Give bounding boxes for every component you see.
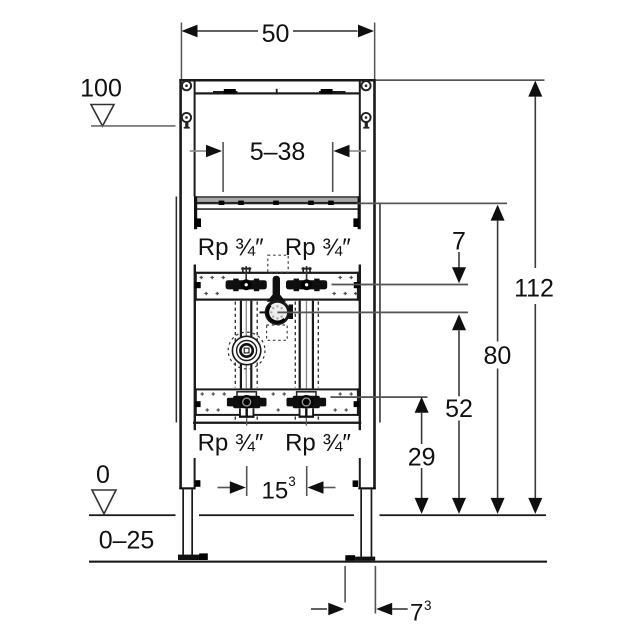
supply elbow fitting top left — [226, 266, 267, 291]
frame right rail outer edge — [373, 79, 376, 489]
dimension 5-38 (adjustable rail range) — [190, 138, 366, 192]
raw floor line — [89, 561, 547, 563]
dashed guide lines left pipe — [235, 302, 257, 423]
frame left rail flange line — [176, 197, 178, 423]
extension line 80 level — [358, 203, 508, 205]
lower crossbar — [194, 388, 360, 416]
drain dashed box above — [268, 255, 288, 272]
frame right rail inner edge (middle) — [359, 265, 361, 431]
dimension 80 (rail height) — [483, 205, 511, 514]
leader line bottom outlets level — [330, 396, 427, 398]
svg-text:15: 15 — [262, 478, 289, 505]
water supply pipe left — [240, 301, 253, 389]
svg-text:3: 3 — [424, 598, 432, 613]
drain funnel — [267, 295, 286, 302]
supply outlet fitting bottom left — [227, 392, 267, 426]
upper crossbar end fixing square right — [354, 282, 360, 288]
top rail mounting slot left — [213, 89, 238, 94]
svg-text:Rp ¾″: Rp ¾″ — [285, 430, 351, 457]
svg-text:0: 0 — [96, 461, 110, 489]
svg-text:3: 3 — [288, 474, 296, 489]
frame left rail outer edge — [179, 79, 182, 489]
screw right upper — [361, 81, 370, 90]
leader line drain level — [277, 312, 468, 314]
lower crossbar rivet texture — [201, 392, 353, 411]
extension line 112 level — [376, 79, 545, 81]
svg-text:112: 112 — [514, 275, 554, 303]
upper crossbar rivet texture — [200, 276, 358, 295]
dimension 29 (outlet height) — [408, 397, 436, 514]
drain dashed box below — [267, 325, 288, 340]
svg-text:0–25: 0–25 — [99, 527, 155, 555]
dimension 112 (frame height) — [514, 81, 554, 514]
upper crossbar end fixing square left — [195, 282, 201, 288]
frame left rail inner edge (middle) — [194, 265, 196, 431]
svg-text:100: 100 — [80, 75, 122, 103]
upper crossbar — [194, 272, 360, 301]
dimension 15^3 (outlet spacing) — [218, 466, 336, 505]
svg-text:Rp ¾″: Rp ¾″ — [285, 234, 351, 261]
drain stem — [273, 276, 280, 296]
svg-text:Rp ¾″: Rp ¾″ — [198, 234, 264, 261]
svg-text:Rp ¾″: Rp ¾″ — [198, 430, 264, 457]
frame right rail flange line — [379, 203, 381, 423]
frame top rail inner edge — [195, 92, 361, 94]
leader line supply level — [332, 284, 469, 286]
adjustable support rail — [194, 196, 360, 210]
svg-text:52: 52 — [445, 395, 473, 423]
frame bottom edge — [193, 422, 361, 424]
svg-text:80: 80 — [483, 342, 511, 370]
rail bracket left — [194, 196, 201, 229]
lower crossbar end fixing square left — [195, 401, 201, 407]
frame left rail inner edge (lower) — [194, 458, 196, 488]
svg-text:29: 29 — [408, 444, 436, 472]
drain clamp tick left — [260, 311, 267, 313]
drain clamp tab right — [289, 305, 293, 320]
supply outlet fitting bottom right — [287, 392, 327, 426]
dimension 7^3 (foot offset) — [311, 566, 432, 627]
screw right lower — [361, 113, 370, 129]
dimension 50 (top width) — [181, 20, 376, 79]
finished floor line — [89, 514, 546, 516]
dimension 7 (supply below rail) — [452, 228, 466, 284]
level marker 100 — [80, 75, 175, 127]
screw left upper — [182, 81, 191, 90]
frame left rail inner edge (upper) — [194, 79, 196, 197]
leg left — [178, 480, 208, 560]
rail bracket right — [353, 196, 360, 229]
mixer rough-in circles — [228, 332, 265, 369]
top rail mounting slot right — [319, 89, 346, 94]
svg-text:5–38: 5–38 — [250, 138, 306, 166]
frame right rail inner edge (lower) — [359, 458, 361, 488]
dashed guide lines right pipe — [295, 302, 318, 423]
frame right rail inner edge (upper) — [359, 79, 361, 197]
svg-text:50: 50 — [262, 20, 290, 48]
supply elbow fitting top right — [286, 266, 327, 291]
svg-text:7: 7 — [452, 228, 466, 256]
dimension 52 (drain height) — [445, 314, 473, 514]
frame top rail — [179, 79, 375, 82]
svg-text:7: 7 — [410, 600, 423, 627]
water supply pipe right — [299, 301, 314, 389]
level marker 0 — [92, 461, 116, 514]
top rail center tick — [276, 89, 278, 94]
screw left lower — [182, 113, 191, 129]
drain socket circle — [266, 301, 288, 323]
leg right — [345, 480, 376, 560]
lower crossbar end fixing square right — [354, 401, 360, 407]
